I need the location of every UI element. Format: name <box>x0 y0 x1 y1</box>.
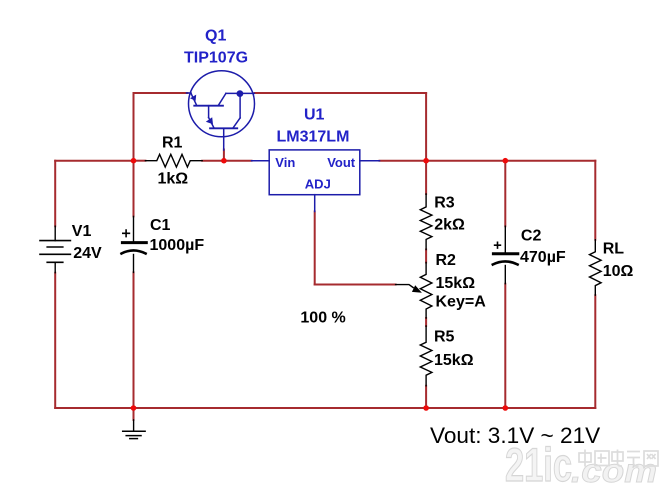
junction node ground <box>131 405 137 411</box>
svg-text:1000µF: 1000µF <box>150 237 205 254</box>
wire wiper horizontal <box>315 284 396 286</box>
wire RL bottom <box>594 295 596 408</box>
svg-text:U1: U1 <box>304 107 325 124</box>
collector1 diagonal <box>218 93 226 105</box>
svg-text:LM317LM: LM317LM <box>277 129 350 146</box>
wire ADJ vertical <box>314 212 316 285</box>
wire V1 left rail upper <box>54 161 56 227</box>
svg-text:R5: R5 <box>434 328 455 345</box>
junction node input <box>131 158 137 164</box>
svg-text:TIP107G: TIP107G <box>184 50 248 67</box>
pin Vout stub <box>360 160 380 162</box>
svg-text:15kΩ: 15kΩ <box>434 352 474 369</box>
label C1 plus <box>122 229 130 237</box>
potentiometer wiper arrow <box>396 285 414 288</box>
base2 vertical <box>208 106 210 118</box>
svg-text:2kΩ: 2kΩ <box>434 217 465 234</box>
wire base horizontal <box>134 92 188 94</box>
junction node bottom R5 <box>423 405 429 411</box>
wire C2 top <box>504 161 506 227</box>
base2 diagonal <box>209 118 214 128</box>
svg-text:Key=A: Key=A <box>436 294 487 311</box>
resistor R3 <box>420 194 432 250</box>
wire V1 left rail lower <box>54 273 56 408</box>
svg-text:100 %: 100 % <box>300 309 345 326</box>
op-amp U1 LM317LM regulator box <box>252 150 380 212</box>
junction node emitter <box>221 158 227 164</box>
wire Vout row <box>380 160 596 162</box>
collector2 diagonal <box>233 118 240 128</box>
potentiometer R2 <box>420 263 432 319</box>
junction node bottom C2 <box>503 405 509 411</box>
svg-text:Vout: Vout <box>327 155 356 170</box>
emitter1 diagonal <box>191 93 197 105</box>
svg-text:R3: R3 <box>434 195 455 212</box>
svg-text:24V: 24V <box>73 245 102 262</box>
pin ADJ stub <box>314 195 316 212</box>
svg-text:10Ω: 10Ω <box>603 263 634 280</box>
top line <box>226 92 255 94</box>
svg-text:Q1: Q1 <box>205 28 226 45</box>
capacitor C2 <box>504 226 506 252</box>
wire ground stem red <box>133 408 135 420</box>
svg-text:1kΩ: 1kΩ <box>158 171 189 188</box>
wire collector drop <box>425 93 427 161</box>
svg-text:V1: V1 <box>72 223 92 240</box>
svg-text:ADJ: ADJ <box>305 177 331 192</box>
wire R3-R2 <box>425 250 427 263</box>
junction node Vout-C2 <box>503 158 509 164</box>
resistor RL <box>590 240 602 296</box>
wire C1 top <box>133 161 135 217</box>
emitter1 arrow <box>190 95 196 101</box>
watermark 21ic.com <box>505 438 658 491</box>
svg-text:470µF: 470µF <box>520 249 566 266</box>
bar2 <box>210 127 237 129</box>
internal junction dot <box>237 90 244 97</box>
wire R1 right to Vin <box>202 160 251 162</box>
svg-text:C1: C1 <box>150 217 171 234</box>
svg-text:RL: RL <box>603 240 625 257</box>
svg-text:21ic: 21ic <box>505 438 572 491</box>
junction node Vout-R3 <box>423 158 429 164</box>
svg-text:R1: R1 <box>162 135 183 152</box>
wire base riser <box>133 93 135 161</box>
bar1 <box>194 105 223 107</box>
battery V1 <box>54 226 56 240</box>
wire R2-R5 <box>425 318 427 326</box>
svg-text:C2: C2 <box>521 228 542 245</box>
collector vertical <box>239 94 241 118</box>
wire R3 top <box>425 161 427 194</box>
watermark chinese characters <box>579 450 658 467</box>
base2 arrow <box>206 117 213 124</box>
wire RL top <box>594 161 596 240</box>
wire C1 bottom <box>133 272 135 408</box>
wire bottom rail <box>55 407 595 409</box>
wire R5 bottom <box>425 386 427 408</box>
wire V1 top horizontal <box>55 160 133 162</box>
resistor R5 <box>420 326 432 386</box>
resistor R1 <box>145 154 202 167</box>
wire collector top <box>255 92 427 94</box>
capacitor C1 <box>133 216 135 241</box>
wire emitter drop <box>223 150 225 161</box>
base lead <box>187 92 192 94</box>
svg-text:15kΩ: 15kΩ <box>436 275 476 292</box>
pin Vin stub <box>252 160 270 162</box>
svg-text:R2: R2 <box>436 252 457 269</box>
label C2 plus <box>494 242 501 249</box>
svg-text:Vin: Vin <box>275 155 295 170</box>
transistor Q1 TIP107G <box>187 71 255 150</box>
ground <box>133 420 135 431</box>
wire C2 bottom <box>504 284 506 408</box>
wire R1 left <box>134 160 146 162</box>
emitter2 stub <box>223 128 225 150</box>
